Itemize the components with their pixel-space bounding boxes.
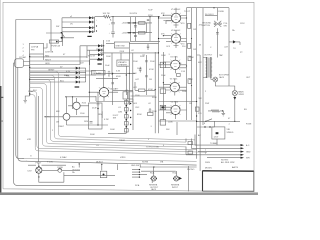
capacitor C10 [145,61,148,62]
svg-text:SWITCH: SWITCH [202,25,210,27]
heater bundle wire 3 [30,80,197,145]
svg-text:100K: 100K [110,129,115,131]
wire rca h links [139,167,196,175]
wire r8 link [131,82,156,96]
svg-text:100K: 100K [161,55,166,57]
wire top-left horizontal run [16,19,51,21]
divider vertical right of jacks [188,166,190,191]
svg-text:2A SLO: 2A SLO [96,161,103,164]
wire footswitch line d [203,154,241,156]
wire fuse right [62,169,80,171]
wire rectifier input bus [61,18,63,32]
svg-text:1W: 1W [193,49,196,51]
svg-text:1.5K: 1.5K [106,41,111,43]
wire rectifier output bus [92,17,94,32]
diode D5 [98,44,101,47]
heater bundle wire 1 [30,71,195,140]
svg-text:FUSE 2A: FUSE 2A [52,45,61,48]
resistor R11 screen [188,43,191,48]
svg-text:SPEED: SPEED [227,132,234,134]
transformer winding bar [29,54,30,96]
svg-text:6.3VAC: 6.3VAC [60,156,67,159]
wire long left vertical bus B [18,67,27,161]
svg-text:20-525V: 20-525V [130,13,138,15]
wire doubler row2 [128,32,152,34]
power switch S1 contacts [46,32,74,46]
wire footswitch line e [207,157,241,159]
svg-text:450V: 450V [116,76,121,78]
interstage box V4-V3 [177,73,181,76]
svg-text:JACK: JACK [219,76,225,79]
diode D1 [89,16,92,19]
svg-text:TREM: TREM [119,140,125,142]
svg-text:DWG: DWG [205,162,210,164]
diode D2 [89,20,92,23]
svg-text:1M: 1M [189,103,192,105]
svg-text:GND: GND [246,152,251,154]
long vertical 158.5 [158,17,160,134]
wire AC drop to switch [50,20,52,52]
svg-text:FUSE: FUSE [219,11,225,13]
components on 160 col 1 [160,62,166,67]
resistor R8 [139,89,145,92]
lamp feed line [28,164,66,166]
svg-text:5W: 5W [199,98,202,100]
wire V2B leads [159,101,187,119]
wire plug to transformer [24,62,30,66]
long vertical 163.4 [162,52,164,120]
vib dark dot 3 [126,119,128,121]
tube V5A pins [171,16,180,22]
wire mid right h1 [197,120,240,122]
svg-text:SPK: SPK [246,158,251,160]
svg-text:RED/Y: RED/Y [45,59,52,61]
diode D6 [98,49,101,52]
svg-text:TO FOOT SW: TO FOOT SW [146,146,159,148]
long heater line 1 [22,159,197,162]
svg-text:MODEL: MODEL [205,168,213,170]
tube pin stubs [99,13,181,115]
svg-text:820K: 820K [137,114,142,116]
wire relay down [216,139,218,145]
tube V6 circle [99,88,108,97]
svg-text:INPUT: INPUT [45,117,52,119]
svg-text:T 6.3V: T 6.3V [47,162,54,164]
wire footswitch line c [198,151,241,153]
capacitor C13 osc [149,108,152,111]
svg-text:SW: SW [113,117,116,119]
doubler vertical c [149,17,151,42]
page border frame [3,2,254,191]
long vertical 155 [154,52,156,133]
fuse box F1 [43,32,62,60]
svg-text:25uF: 25uF [161,75,166,77]
svg-text:12AX7: 12AX7 [58,125,65,128]
junction small boxes [188,142,193,145]
svg-text:GRN: GRN [45,63,50,65]
svg-text:500K: 500K [90,134,95,136]
svg-text:OSC: OSC [135,107,140,109]
scan edge left dark bar [0,86,1,195]
ground switch S2 [205,15,221,26]
svg-text:AA270: AA270 [232,166,239,169]
svg-text:250K: 250K [150,61,155,63]
svg-text:PRI: PRI [31,50,35,52]
svg-text:TO OT: TO OT [184,11,191,13]
wire jack connections [215,82,235,121]
AC plug box [15,59,24,68]
wire B+ main line [95,16,160,18]
svg-text:V4 7025: V4 7025 [170,56,178,58]
jack J2 main speaker [232,90,237,95]
heater bundle wire 5 [30,88,197,150]
heater bundle wire 2 [30,75,186,142]
tube left stubs and junction dots [158,7,215,113]
resistor R3 220K [139,31,146,34]
speaker jack box [100,171,107,178]
vib dark dot 1 [126,105,128,107]
capacitor C11 [145,76,148,77]
wire bridge2 outs [101,46,104,59]
wire bias out [79,60,90,102]
fold mark left border y121 [1,120,3,123]
heater bundle wire 7 [30,95,197,155]
power transformer T1 primary box [30,43,44,54]
resistor R12 [188,56,191,61]
junction dots scattered [62,16,235,167]
wire cluster drops [79,164,140,170]
scan edge top-left faint [0,0,1,86]
bias dash mark [75,86,80,87]
wire V6 leads [66,92,118,101]
svg-text:MAIN: MAIN [239,91,245,94]
bias diode DB3 [76,76,79,79]
wire doubler row1 [128,22,152,24]
diode cathode bars [79,17,102,84]
arrow fs b [241,147,245,149]
components on 160 col 3 [160,105,166,109]
vib cap mark 3 [124,115,128,118]
svg-text:4.7M: 4.7M [104,119,109,121]
wire mid run4 [96,77,118,79]
svg-text:A.C.: A.C. [246,144,250,147]
svg-text:SPKR: SPKR [239,94,245,96]
wire V2B bottom drop [176,122,178,135]
svg-text:DRV: DRV [84,121,89,123]
wire V3 leads [159,79,187,91]
svg-text:BLK: BLK [33,90,37,92]
svg-text:115V: 115V [240,23,245,25]
cathode stub V4 [174,69,176,73]
wire rectifier feed lines [62,18,89,32]
vertical 146 doubler [145,23,147,33]
wire bridge2 feeds [80,46,98,65]
svg-text:BIAS ADJ: BIAS ADJ [93,72,102,75]
resistor R20 [208,110,223,112]
svg-text:SW: SW [224,26,227,28]
svg-text:3.3K: 3.3K [116,71,121,73]
components on 160 col 2 [160,89,166,94]
heater verticals to lamp [38,96,40,162]
reverb marks [90,111,103,123]
svg-text:HTRS: HTRS [120,157,126,159]
rca jack JR2 [173,171,182,181]
svg-text:FUSE: FUSE [58,167,64,169]
heater wire top run [106,43,159,45]
dash mark under D8 [98,63,102,64]
svg-text:RCA: RCA [150,172,155,175]
diode D3 [89,26,92,29]
svg-text:V6 12AT7: V6 12AT7 [110,88,120,91]
tube V2B pins [171,108,181,116]
bias diode DB4 [76,81,79,84]
svg-text:EXT SPKR: EXT SPKR [219,75,229,77]
svg-text:GRN/Y: GRN/Y [48,70,55,72]
resistor R2 220K [139,22,146,25]
resistor R13 [188,79,191,84]
vib cap mark 1 [124,101,128,104]
svg-text:OUTPUT: OUTPUT [204,55,213,57]
wire d9 [229,8,240,86]
pilot lamp PL1 [36,163,42,178]
svg-text:V3 7025: V3 7025 [170,79,178,81]
relay box [212,127,225,139]
vertical 132.8 [132,53,134,103]
long heater line 2 [26,161,197,165]
svg-text:TAP: TAP [219,54,223,57]
svg-text:1W: 1W [193,29,196,31]
svg-text:REV: REV [98,114,103,116]
svg-text:70uF: 70uF [148,10,153,12]
dash mark under D4 [87,36,91,37]
wire footswitch line b [198,147,241,149]
node dot c7 [97,108,98,109]
svg-text:HTR: HTR [27,139,32,141]
svg-text:TO AMP: TO AMP [210,142,218,145]
diode D4 [89,30,92,33]
capacitor C2 filter [111,32,115,38]
tube V6 pins [99,87,109,98]
contact dot b2 [209,126,210,127]
switch contact dot [205,121,206,122]
arrow fs c [241,151,245,153]
capacitor C9 [216,33,219,34]
arrow fs d [241,154,245,156]
wire transformer secondary leads right [30,46,96,75]
small box on 197 [195,107,199,111]
resistor R1 10K coil [104,15,111,18]
diode D7 [98,53,101,56]
svg-text:1M: 1M [149,79,152,81]
label box vibrato [117,60,129,66]
svg-text:INPUT: INPUT [172,187,179,189]
wire V5B leads [159,30,187,42]
svg-text:SOL ST: SOL ST [88,56,96,58]
svg-text:RCA: RCA [173,172,178,175]
switch blade [206,119,212,122]
svg-text:100K: 100K [182,91,187,93]
capacitor bias electrolytic [97,59,102,60]
svg-text:1M: 1M [56,122,59,124]
svg-text:PILOT: PILOT [36,163,43,165]
arrow fs a [241,144,245,146]
svg-text:100K: 100K [137,68,142,70]
vib dark dot 2 [126,112,128,114]
svg-text:ALL RES 1/2W: ALL RES 1/2W [221,161,234,164]
vib contact dots col [130,103,131,125]
svg-text:V2 7025: V2 7025 [171,102,179,104]
scattered speckle labels 2 [27,14,251,169]
diode D8 [98,58,101,61]
wire vert 112 [111,53,113,75]
svg-text:GROUND: GROUND [202,23,211,25]
capacitor C8 on run3 [108,71,111,77]
bias diode DB1 [76,67,79,70]
reverb box [89,103,103,129]
cathode stub V5B [174,43,179,48]
wire bias feeds [30,68,76,82]
svg-text:220K: 220K [120,51,125,53]
heater bundle wire 4 [30,84,186,147]
wire vert 129.3 [128,48,130,105]
tube V3 pins [170,85,179,91]
tube V2 half circle [63,113,70,120]
capacitor C12 [139,67,142,73]
wire mid run3 [96,72,135,74]
wire top right run [187,7,230,9]
tube V5B circle [171,34,180,43]
capacitor on 112.7 [111,83,114,84]
dark dash marks doubler [128,22,136,33]
capacitor C3 20uF [134,26,137,27]
svg-text:25uF: 25uF [92,108,97,110]
diode D9 [233,40,236,43]
svg-text:OUTLET: OUTLET [72,169,81,171]
svg-text:250K: 250K [133,61,138,63]
right vertical bus 196 [196,8,198,159]
vibrato module boxes [123,92,128,99]
resistor R10 screen [188,23,191,28]
rca jack JR1 [150,167,157,183]
svg-text:GND SW: GND SW [131,165,139,167]
svg-text:525V: 525V [148,15,153,17]
vertical 146 mid [145,55,147,95]
svg-text:100K: 100K [106,56,111,58]
svg-text:220K: 220K [152,111,157,113]
wire footswitch line a [198,144,241,146]
right vertical bus 203 [202,8,204,125]
wire vert 112.7 [112,73,114,105]
capacitor C4 20uF [134,35,137,36]
bias diode DB2 [76,71,79,74]
choke box L1 [114,42,129,48]
wire vib out left [108,132,126,134]
svg-text:SW: SW [56,26,59,28]
svg-text:CHANNEL: CHANNEL [118,64,128,67]
scattered value labels [28,11,247,187]
bottom mid switch cluster [132,169,140,178]
arrow under J2 [233,97,236,100]
svg-text:+420V: +420V [122,33,129,35]
tube V4 pins [171,63,180,69]
svg-text:330K: 330K [152,97,157,99]
components on 160 col 4 [160,120,166,126]
tube internal electrodes [102,15,178,112]
transformer pin labels column [23,44,25,57]
wire V4 leads [159,56,187,68]
svg-text:BLU: BLU [60,80,64,82]
tube V3 circle [170,83,179,92]
svg-text:10M: 10M [118,112,122,114]
junction cluster right of bundle [186,135,203,155]
capacitor C1 filter [111,17,115,32]
wire V5A leads [159,8,187,21]
wire V2 leads [44,97,108,125]
capacitor C5 [147,20,149,21]
jack J1 ext speaker [213,77,218,82]
svg-text:RED: RED [45,55,50,57]
wire V6 plate run [96,102,133,106]
wire lamp right [42,169,58,171]
svg-text:6.3V: 6.3V [28,170,33,172]
tube V4 circle [171,60,180,69]
vib cap mark 2 [124,108,128,111]
svg-text:JACK: JACK [151,188,157,191]
svg-text:10K 1W: 10K 1W [103,13,110,15]
wire lamp loop [39,172,115,182]
svg-text:1.5K: 1.5K [181,71,186,73]
node B+ a [112,16,113,17]
svg-text:6.3V: 6.3V [66,71,71,73]
svg-text:TO: TO [233,48,236,50]
vib cap mark 4 [124,122,128,125]
svg-text:125P23B: 125P23B [45,52,54,54]
svg-text:470K: 470K [149,69,154,71]
svg-text:PHONO: PHONO [187,169,195,171]
wire V2B cathode row [159,120,197,122]
relay blob [216,132,219,134]
junction marks right of bridge [96,25,97,26]
scan edge bottom gray band [0,192,258,195]
cathode stub V3 [174,92,176,96]
wire mid right h2 [197,121,215,127]
wire long left vertical bus C [14,63,115,185]
svg-text:250K: 250K [189,57,194,59]
node dot r20 [222,110,223,111]
svg-text:NORM: NORM [142,162,148,164]
svg-text:470K: 470K [148,89,153,91]
tube V1 half circle [73,102,80,109]
tube V5B pins [171,36,180,42]
svg-text:25W: 25W [205,103,209,105]
capacitor C6 [147,44,149,50]
heater bundle wire 6 [30,91,207,152]
vib cap mark 5 [124,129,128,132]
svg-text:NOTES:: NOTES: [221,160,229,162]
fold mark left border y97 [1,97,4,98]
svg-text:1N4007: 1N4007 [96,49,104,51]
transformer ground [23,96,29,103]
doubler vertical b [134,17,136,42]
label box rectifier [92,70,106,75]
right vertical bus 191 [191,8,193,120]
stub to vibrato box [120,53,122,60]
wire above vib [113,89,133,91]
svg-text:RCA: RCA [135,184,140,187]
fuse F2 circle [58,168,62,172]
tube V2B circle [171,105,180,114]
wire vert preamp feed [103,40,105,87]
